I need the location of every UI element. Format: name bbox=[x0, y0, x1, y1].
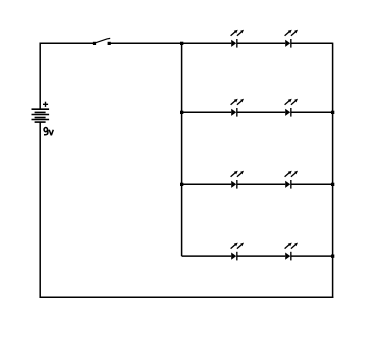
junction dot: node A, left bus at row 1 bbox=[180, 42, 183, 45]
wire: row 2, LED D4 cathode to right bus bbox=[291, 111, 333, 113]
wire: row 3, LED D5 cathode to LED D6 anode bbox=[237, 183, 286, 185]
wire: left bus vertical (node A chain) bbox=[181, 43, 183, 257]
wire: right bus vertical (cathode return) bbox=[332, 43, 334, 298]
junction dot: right bus at row 4 bbox=[331, 255, 334, 258]
switch S1, lever arm (open) bbox=[96, 38, 111, 42]
LED D4 (row 2 right) bbox=[285, 99, 298, 117]
wire: left vertical, battery - plate down to bottom wire bbox=[39, 122, 41, 298]
wire: row 2, LED D3 cathode to LED D4 anode bbox=[237, 111, 286, 113]
switch S1, right contact dot bbox=[108, 42, 111, 45]
wire: bottom return, battery to right bus bbox=[40, 296, 334, 298]
LED D5 (row 3 left) bbox=[231, 171, 244, 189]
wire: row 4, left bus to LED D7 anode bbox=[182, 255, 232, 257]
junction dot: left bus at row 2 bbox=[180, 111, 183, 114]
LED D7 (row 4 left) bbox=[231, 243, 244, 261]
wire: row 3, left bus to LED D5 anode bbox=[182, 183, 232, 185]
wire: top, switch right contact to node A bbox=[110, 42, 181, 44]
LED D6 (row 3 right) bbox=[285, 171, 298, 189]
switch S1, left contact dot bbox=[93, 42, 96, 45]
battery BT1 value label: 9v bbox=[44, 128, 53, 135]
wire: row 4, LED D7 cathode to LED D8 anode bbox=[237, 255, 286, 257]
wire: row 3, LED D6 cathode to right bus bbox=[291, 183, 333, 185]
LED D3 (row 2 left) bbox=[231, 99, 244, 117]
junction dot: right bus at row 3 bbox=[331, 183, 334, 186]
wire: left vertical, top wire down to battery + plate bbox=[39, 43, 41, 110]
junction dot: right bus at row 2 bbox=[331, 111, 334, 114]
LED D1 (row 1 left) bbox=[231, 30, 244, 48]
junction dot: left bus at row 3 bbox=[180, 183, 183, 186]
wire: top, battery + to switch left contact bbox=[40, 42, 94, 44]
wire: row 1, left bus to LED D1 anode bbox=[182, 42, 232, 44]
wire: row 2, left bus to LED D3 anode bbox=[182, 111, 232, 113]
wire: row 1, LED D1 cathode to LED D2 anode bbox=[237, 42, 286, 44]
LED D2 (row 1 right) bbox=[285, 30, 298, 48]
wire: row 1, LED D2 cathode to right bus bbox=[291, 42, 333, 44]
battery BT1 polarity mark: + bbox=[43, 102, 48, 107]
battery BT1 (9v), plates bbox=[32, 109, 50, 122]
LED D8 (row 4 right) bbox=[285, 243, 298, 261]
wire: row 4, LED D8 cathode to right bus bbox=[291, 255, 333, 257]
